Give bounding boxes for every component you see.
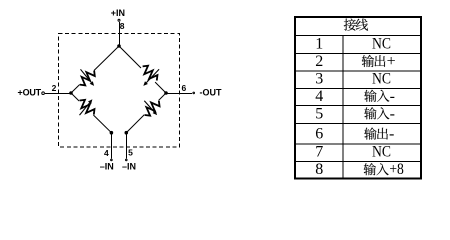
- svg-text:7: 7: [315, 144, 323, 161]
- svg-text:5: 5: [128, 148, 133, 158]
- svg-text:1: 1: [315, 35, 323, 52]
- svg-text:6: 6: [315, 126, 323, 143]
- svg-text:+8: +8: [389, 161, 404, 178]
- svg-text:6: 6: [182, 83, 187, 93]
- svg-text:8: 8: [120, 21, 125, 31]
- svg-text:–IN: –IN: [122, 162, 136, 172]
- svg-text:+OUT: +OUT: [18, 88, 42, 98]
- svg-text:-: -: [390, 88, 395, 105]
- svg-text:NC: NC: [372, 35, 391, 52]
- svg-text:-OUT: -OUT: [200, 87, 222, 97]
- svg-text:8: 8: [315, 161, 323, 178]
- svg-text:2: 2: [52, 83, 57, 93]
- svg-text:4: 4: [315, 88, 323, 105]
- svg-text:3: 3: [315, 71, 323, 88]
- svg-text:-: -: [389, 126, 394, 143]
- svg-text:2: 2: [315, 53, 323, 70]
- svg-text:–IN: –IN: [100, 162, 114, 172]
- svg-text:NC: NC: [372, 144, 391, 161]
- svg-text:4: 4: [104, 148, 109, 158]
- svg-text:+: +: [387, 53, 396, 70]
- svg-text:-: -: [390, 105, 395, 122]
- svg-text:NC: NC: [372, 71, 391, 88]
- svg-text:5: 5: [315, 105, 323, 122]
- svg-text:+IN: +IN: [111, 8, 125, 18]
